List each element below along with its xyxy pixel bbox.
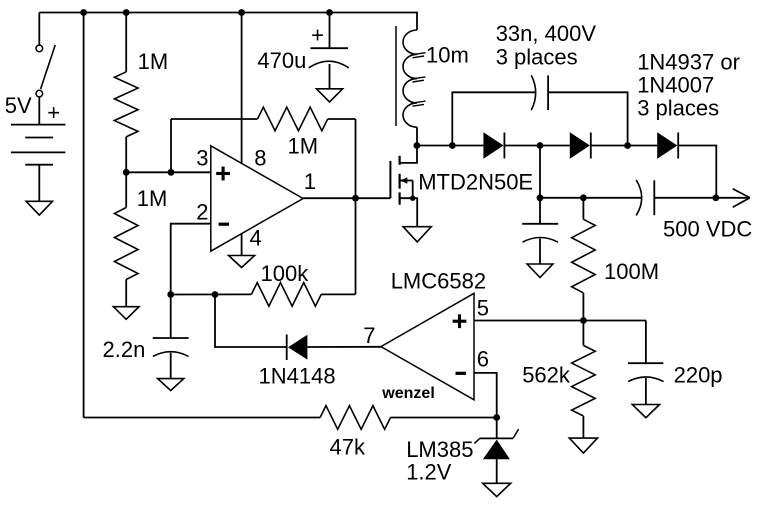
wire 100k to output column (321, 293, 355, 295)
label U1 pin 1 (304, 169, 316, 194)
wire pin5 corner to 220p (645, 321, 647, 364)
diode D1 1N4937 (483, 132, 503, 158)
wire LM385 top lead (496, 418, 498, 439)
wire D3 to output corner (678, 146, 716, 198)
svg-text:1M: 1M (137, 186, 168, 211)
wire U1 pin2 (171, 224, 211, 295)
output arrow 500 VDC (733, 189, 750, 208)
wire 1M to divider node (125, 137, 127, 173)
wire node to C 2.2n (170, 295, 172, 339)
label 33n, 400V (496, 21, 597, 46)
node diode branch (212, 291, 219, 298)
battery BT1 plate long (11, 151, 66, 153)
label 33n 3 places (496, 44, 578, 69)
label 10m (426, 43, 469, 68)
transistor Q1 gate bar (389, 161, 391, 198)
node pin2 column (167, 291, 174, 298)
label 100k (261, 261, 310, 286)
svg-text:6: 6 (477, 347, 489, 372)
transistor Q1 channel (399, 156, 401, 205)
label 100M (604, 259, 659, 284)
wire 1M lower to ground (125, 280, 127, 307)
wire U1 pin4 ground lead (241, 234, 243, 256)
zener D LM385 bar tick right (513, 429, 519, 438)
svg-text:470u: 470u (257, 48, 306, 73)
svg-text:562k: 562k (522, 363, 571, 388)
label 220p (674, 363, 723, 388)
transistor Q1 body arrow (400, 177, 413, 184)
ground LM385 (483, 483, 511, 496)
node second rail A (537, 194, 544, 201)
wire 470u lead (329, 13, 331, 49)
ground 470u (316, 89, 342, 102)
ground C 2.2n (158, 379, 184, 391)
inductor L 10m loop marks (411, 53, 426, 106)
capacitor C 220p curved plate (628, 377, 663, 382)
svg-text:3: 3 (196, 145, 208, 170)
node feedback tap (168, 169, 175, 176)
zener D LM385 body (483, 440, 510, 460)
op-amp U2 body (381, 293, 474, 400)
U1 minus sign (219, 223, 229, 226)
wire pin2 node to 100k (171, 293, 252, 295)
capacitor C 33n bottom curved plate (636, 180, 642, 215)
capacitor C 33n top plate (547, 75, 549, 110)
U2 plus sign (453, 314, 467, 328)
node 100M top (580, 194, 587, 201)
svg-text:2: 2 (196, 199, 208, 224)
resistor R 562k lead top (582, 321, 584, 346)
diode D2 bar (590, 133, 592, 159)
svg-text:2.2n: 2.2n (103, 337, 146, 362)
node pin5 divider (580, 317, 587, 324)
svg-text:5: 5 (477, 296, 489, 321)
node top rail pin8 (238, 9, 245, 16)
label LM385 (406, 437, 473, 462)
label 1M upper (138, 49, 169, 74)
wire filter cap to ground (539, 239, 541, 264)
node drain (414, 142, 421, 149)
wire divider to pin3 (126, 171, 211, 173)
svg-text:1M: 1M (288, 134, 319, 159)
svg-text:1: 1 (304, 169, 316, 194)
wire left vertical drop (83, 13, 85, 418)
U1 plus sign (216, 167, 230, 181)
wire feedback horizontal (171, 118, 258, 120)
label 500 VDC (663, 216, 752, 241)
resistor R 562k (572, 345, 596, 416)
svg-text:10m: 10m (426, 43, 469, 68)
wire rail to inductor (416, 12, 418, 30)
ground 220p (632, 405, 659, 418)
node top rail 470u (326, 9, 333, 16)
label 470u (257, 48, 306, 73)
node output (712, 194, 719, 201)
svg-text:47k: 47k (330, 435, 366, 460)
wire U1 output to gate (303, 197, 390, 199)
wire LM385 to ground (496, 459, 498, 483)
label U1 pin 4 (250, 226, 262, 251)
label battery + (47, 100, 60, 125)
node LM385 (493, 414, 500, 421)
wire diode branch (215, 295, 287, 348)
node Q1 source (410, 196, 415, 201)
svg-text:LMC6582: LMC6582 (391, 268, 486, 293)
switch S1 blade (41, 45, 56, 89)
capacitor C 33n top curved plate (531, 75, 535, 110)
svg-text:100M: 100M (604, 259, 659, 284)
label 562k (522, 363, 571, 388)
capacitor C filter curved plate (522, 238, 558, 243)
ground Q1 source (403, 227, 431, 242)
label 47k (330, 435, 366, 460)
capacitor C 220p plate (628, 362, 663, 364)
node divider (123, 169, 130, 176)
ground 562k (569, 438, 597, 453)
wire U2 pin6 (474, 373, 497, 418)
battery BT1 plate short bottom (25, 164, 53, 166)
wire +5V top rail (39, 12, 417, 14)
capacitor C 33n bottom plate (653, 180, 655, 215)
transistor Q1 source lead (400, 198, 418, 227)
label 1N4007 (637, 73, 714, 98)
capacitor C 2.2n curved plate (153, 352, 189, 357)
wire feedback vertical (170, 119, 172, 172)
label U2 pin 6 (477, 347, 489, 372)
label U2 pin 5 (477, 296, 489, 321)
wire multiplier A riser (539, 146, 541, 198)
resistor R 100M lead top (582, 198, 584, 220)
resistor R 562k lead bottom (582, 416, 584, 438)
wire battery to ground (38, 165, 40, 202)
svg-text:33n, 400V: 33n, 400V (496, 21, 597, 46)
wire D1 to D2 (504, 145, 569, 147)
svg-text:+: + (47, 100, 60, 125)
diode D 1N4148 (288, 335, 307, 360)
switch S1 top contact (36, 45, 43, 52)
label 2.2n (103, 337, 146, 362)
wire 220p to ground (645, 378, 647, 405)
ground battery (26, 201, 52, 215)
capacitor C 2.2n plate (153, 337, 189, 339)
node multiplier B (624, 142, 631, 149)
resistor R 1M lower lead (125, 172, 127, 207)
svg-text:LM385: LM385 (406, 437, 473, 462)
svg-text:wenzel: wenzel (381, 385, 434, 402)
resistor R 1M upper (114, 72, 138, 137)
label 1.2V (406, 460, 452, 485)
node cap riser left (449, 142, 456, 149)
svg-text:1M: 1M (138, 49, 169, 74)
wire switch drop (38, 13, 40, 45)
label 1M feedback (288, 134, 319, 159)
zener D LM385 bar tick left (474, 438, 479, 443)
capacitor C 470u curved plate (309, 61, 349, 68)
ground U1 pin4 (229, 256, 255, 268)
label 1N4148 (259, 364, 336, 389)
label wenzel (381, 385, 434, 402)
svg-text:3 places: 3 places (496, 44, 578, 69)
svg-text:220p: 220p (674, 363, 723, 388)
wire output stub (716, 197, 750, 199)
diode D3 bar (677, 133, 679, 159)
resistor R 100M lead bottom (582, 293, 584, 321)
zener D LM385 bar (480, 437, 513, 439)
wire U2 pin5 row (474, 320, 646, 322)
diode D1 bar (503, 133, 505, 159)
wire inductor to drain node (416, 127, 418, 145)
op-amp U1 body (211, 146, 303, 251)
resistor R 100M (572, 219, 596, 293)
wire second rail left (540, 197, 641, 199)
label diode 3 places (637, 96, 719, 121)
label 1N4937 or (637, 50, 740, 75)
label MTD2N50E (418, 170, 533, 195)
label LMC6582 (391, 268, 486, 293)
wire D2 to D3 (591, 145, 657, 147)
wire feedback to output column (328, 118, 356, 120)
svg-text:1N4007: 1N4007 (637, 73, 714, 98)
wire pin8 supply (241, 13, 243, 164)
transistor Q1 drain lead (400, 146, 417, 163)
diode D3 1N4937 (657, 132, 677, 158)
svg-text:100k: 100k (261, 261, 310, 286)
capacitor C 470u plate (311, 47, 349, 49)
svg-text:1.2V: 1.2V (406, 460, 452, 485)
svg-text:7: 7 (363, 323, 375, 348)
wire 1M top lead (125, 13, 127, 72)
diode D 1N4148 bar (286, 335, 288, 361)
resistor R 1M lower (114, 208, 138, 280)
battery BT1 plate long top (11, 124, 66, 126)
node output column (352, 195, 359, 202)
wire switch to battery (38, 97, 40, 125)
label U1 pin 2 (196, 199, 208, 224)
svg-text:500 VDC: 500 VDC (663, 216, 752, 241)
wire 470u to ground (329, 64, 331, 89)
node top rail at 1M (123, 9, 130, 16)
ground 1M lower (113, 307, 139, 320)
wire 47k to LM385 node (391, 417, 498, 419)
wire second rail right (654, 197, 716, 199)
wire cap riser left (452, 92, 535, 145)
wire bottom rail left (84, 417, 321, 419)
resistor R 100k (251, 283, 321, 307)
wire drain to D1 (417, 145, 484, 147)
ground filter cap (527, 264, 553, 278)
inductor L 10m (403, 30, 417, 127)
resistor R 1M feedback (258, 107, 328, 131)
U2 minus sign (456, 372, 466, 375)
inductor L 10m core (395, 26, 397, 126)
label 5V (5, 93, 32, 118)
label U2 pin 7 (363, 323, 375, 348)
label U1 pin 3 (196, 145, 208, 170)
wire cap riser right (548, 92, 628, 145)
wire Q1 body to source (412, 181, 414, 199)
svg-text:8: 8 (254, 145, 266, 170)
diode D2 1N4937 (570, 132, 590, 158)
node multiplier A (537, 142, 544, 149)
label U1 pin 8 (254, 145, 266, 170)
wire node A to cap (539, 198, 541, 224)
wire C 2.2n to ground (170, 353, 172, 379)
svg-text:4: 4 (250, 226, 262, 251)
label 1M lower (137, 186, 168, 211)
resistor R 47k (320, 406, 390, 430)
node top rail left (80, 9, 87, 16)
svg-text:5V: 5V (5, 93, 32, 118)
capacitor C filter plate (522, 223, 558, 225)
svg-text:MTD2N50E: MTD2N50E (418, 170, 533, 195)
svg-text:+: + (311, 23, 324, 48)
svg-text:3 places: 3 places (637, 96, 719, 121)
label 470u + (311, 23, 324, 48)
wire output column vertical (355, 119, 357, 294)
svg-text:1N4937 or: 1N4937 or (637, 50, 740, 75)
battery BT1 plate short (25, 137, 53, 139)
svg-text:1N4148: 1N4148 (259, 364, 336, 389)
wire diode to U2 output (307, 346, 381, 348)
switch S1 bottom contact (36, 90, 43, 97)
